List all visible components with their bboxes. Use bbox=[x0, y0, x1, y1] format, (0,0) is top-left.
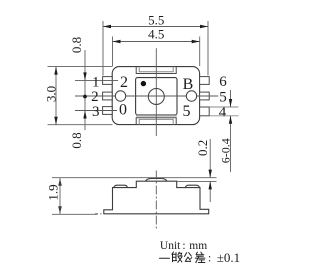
svg-text:0.8: 0.8 bbox=[69, 132, 84, 148]
svg-text:2: 2 bbox=[120, 74, 128, 91]
svg-text:5: 5 bbox=[183, 103, 191, 120]
svg-text:mm: mm bbox=[189, 240, 207, 252]
svg-text:±0.1: ±0.1 bbox=[217, 250, 240, 265]
svg-text:1: 1 bbox=[92, 74, 100, 90]
svg-text:4.5: 4.5 bbox=[148, 27, 164, 42]
svg-text:B: B bbox=[183, 76, 194, 93]
svg-text::: : bbox=[182, 240, 185, 252]
svg-text:1.9: 1.9 bbox=[46, 184, 61, 200]
svg-text:0.2: 0.2 bbox=[195, 140, 210, 156]
svg-text:3.0: 3.0 bbox=[43, 86, 58, 102]
svg-text:6: 6 bbox=[219, 74, 227, 90]
svg-text:0.8: 0.8 bbox=[69, 37, 84, 53]
svg-text:0: 0 bbox=[119, 102, 127, 119]
svg-text::: : bbox=[208, 253, 211, 265]
svg-text:3: 3 bbox=[92, 104, 100, 120]
svg-text:5.5: 5.5 bbox=[148, 13, 164, 28]
svg-text:2: 2 bbox=[91, 89, 99, 105]
svg-text:6-0.4: 6-0.4 bbox=[218, 138, 232, 163]
svg-text:5: 5 bbox=[219, 89, 227, 105]
svg-text:Unit: Unit bbox=[160, 240, 181, 252]
